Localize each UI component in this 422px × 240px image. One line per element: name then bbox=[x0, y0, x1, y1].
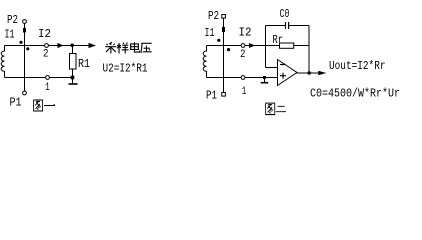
svg-text:C0: C0 bbox=[280, 7, 290, 21]
svg-text:R1: R1 bbox=[78, 57, 90, 71]
svg-text:2: 2 bbox=[240, 49, 246, 61]
svg-text:I2: I2 bbox=[38, 27, 51, 41]
svg-text:C0=4500/W*Rr*Ur: C0=4500/W*Rr*Ur bbox=[310, 87, 400, 101]
svg-text:U2=I2*R1: U2=I2*R1 bbox=[103, 62, 148, 76]
svg-text:1: 1 bbox=[242, 86, 247, 98]
svg-text:I2: I2 bbox=[239, 26, 252, 40]
svg-text:P2: P2 bbox=[7, 13, 18, 27]
svg-text:I1: I1 bbox=[205, 26, 215, 40]
svg-text:Rr: Rr bbox=[273, 33, 284, 47]
svg-text:P2: P2 bbox=[208, 9, 219, 23]
svg-text:P1: P1 bbox=[206, 89, 217, 103]
svg-text:1: 1 bbox=[45, 82, 50, 94]
svg-text:I1: I1 bbox=[5, 28, 15, 42]
svg-text:Uout=I2*Rr: Uout=I2*Rr bbox=[329, 59, 386, 73]
svg-text:2: 2 bbox=[43, 49, 49, 61]
svg-text:P1: P1 bbox=[10, 96, 22, 110]
